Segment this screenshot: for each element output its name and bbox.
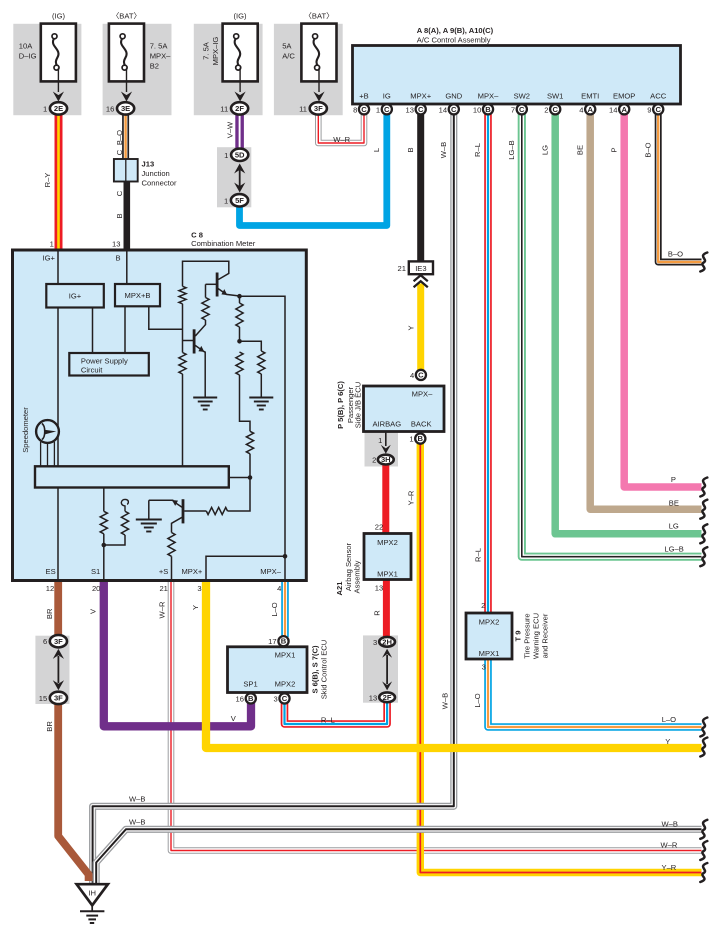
wire L-O from Tire Pressure ECU pin 3 to right edge <box>488 658 702 727</box>
wire R8 to Q4 base <box>184 510 206 512</box>
connector 2 3H <box>372 455 394 465</box>
wire R-L from connector 2F to Skid Control ECU MPX2 pin 3 <box>285 701 388 724</box>
ECU T9 Tire Pressure Warning ECU box <box>466 613 512 659</box>
svg-text:3E: 3E <box>121 104 130 113</box>
svg-text:9: 9 <box>647 105 651 114</box>
wire R7 to node3 <box>228 454 251 511</box>
svg-text:〈BAT〉: 〈BAT〉 <box>112 11 141 20</box>
svg-text:T 9: T 9 <box>514 631 523 642</box>
connector 16 3E <box>106 102 134 114</box>
wire R-L from A/C MPX- pin to Tire Pressure ECU pin 2 <box>484 112 492 614</box>
svg-text:3: 3 <box>373 638 377 647</box>
pin 1 C IG of A/C Control Assembly <box>376 92 392 115</box>
svg-text:L–O: L–O <box>270 602 279 616</box>
svg-text:Y: Y <box>191 605 200 610</box>
svg-text:BE: BE <box>576 145 585 155</box>
svg-text:MPX2: MPX2 <box>479 618 500 627</box>
svg-text:MPX–IG: MPX–IG <box>211 37 220 66</box>
label 10A D-IG <box>19 41 37 60</box>
svg-text:C: C <box>451 105 457 114</box>
svg-text:MPX+: MPX+ <box>181 567 202 576</box>
svg-text:B–O: B–O <box>115 130 124 145</box>
connector 13 2F <box>369 692 395 702</box>
svg-text:B: B <box>248 694 254 703</box>
svg-text:2: 2 <box>372 456 376 465</box>
pin 7 C SW2 of A/C Control Assembly <box>511 92 530 115</box>
svg-text:J13: J13 <box>142 160 155 169</box>
transistor Q4 PNP near +S <box>149 499 183 532</box>
speedometer gauge <box>36 420 59 443</box>
continuation curl for W-R <box>700 841 707 860</box>
svg-text:1: 1 <box>43 104 47 113</box>
svg-text:P: P <box>671 475 676 484</box>
svg-text:MPX1: MPX1 <box>377 569 398 578</box>
connector 1 5F <box>224 194 248 206</box>
wire LG-B from A/C SW2 pin to right edge <box>522 112 702 557</box>
junction connector J13 <box>114 159 138 182</box>
svg-text:3F: 3F <box>54 694 63 703</box>
svg-text:1: 1 <box>224 196 228 205</box>
svg-text:21: 21 <box>398 264 406 273</box>
svg-text:C: C <box>552 105 558 114</box>
fuse F1 10A D-IG <box>41 24 76 102</box>
svg-text:Skid Control ECU: Skid Control ECU <box>319 640 328 700</box>
svg-text:3F: 3F <box>314 104 323 113</box>
svg-text:(IG): (IG) <box>233 11 247 20</box>
svg-text:〈BAT〉: 〈BAT〉 <box>304 11 333 20</box>
svg-text:W–R: W–R <box>157 601 166 618</box>
svg-text:Warning ECU: Warning ECU <box>532 613 541 659</box>
svg-text:B2: B2 <box>150 61 159 70</box>
svg-text:2F: 2F <box>235 104 244 113</box>
svg-text:3H: 3H <box>381 455 391 464</box>
svg-text:BR: BR <box>45 721 54 732</box>
svg-text:5A: 5A <box>282 41 292 50</box>
svg-text:B–O: B–O <box>668 250 683 259</box>
connector pair 3F-3F background panel <box>35 636 69 704</box>
wire L cyan from connector 5F to A/C IG pin <box>240 112 387 226</box>
pin 4 A EMTI of A/C Control Assembly <box>579 92 599 115</box>
wire R10 to node4 and S1 pin <box>103 534 105 580</box>
wire R6 to ground G2 <box>260 374 262 398</box>
connector pair 2H-2F background panel <box>363 635 398 702</box>
node4 S1 junction <box>102 543 107 548</box>
svg-text:+B: +B <box>359 92 369 101</box>
svg-text:12: 12 <box>46 584 54 593</box>
arrow pair between 5D and 5F <box>234 164 245 193</box>
wire R9 to +S pin <box>171 556 173 580</box>
pin 4 C of Passenger Side J/B ECU <box>410 370 426 380</box>
svg-text:S 6(B), S 7(C): S 6(B), S 7(C) <box>310 645 319 694</box>
svg-text:1: 1 <box>376 105 380 114</box>
svg-text:C: C <box>384 105 390 114</box>
svg-text:C: C <box>519 105 525 114</box>
connector 15 3F <box>39 692 67 704</box>
svg-text:L–O: L–O <box>662 715 676 724</box>
svg-text:(IG): (IG) <box>52 11 66 20</box>
svg-text:SW1: SW1 <box>547 92 563 101</box>
pin S1 label <box>91 567 100 593</box>
label 7.5A MPX-B2 <box>150 41 171 70</box>
svg-text:IH: IH <box>88 888 96 897</box>
svg-text:MPX–: MPX– <box>478 92 499 101</box>
pin 2 C SW1 of A/C Control Assembly <box>544 92 563 115</box>
ground G1 inside meter <box>193 397 217 399</box>
continuation curl for Y <box>700 738 707 757</box>
svg-text:R–L: R–L <box>473 143 482 157</box>
wire Q4 to ground G3 <box>148 500 150 519</box>
svg-text:4: 4 <box>410 371 414 380</box>
wire R4 to node2 <box>239 327 241 341</box>
wire node down to resistor R4 <box>239 296 241 303</box>
svg-text:L: L <box>372 148 381 152</box>
svg-text:W–R: W–R <box>333 135 350 144</box>
svg-text:C: C <box>115 190 124 196</box>
svg-text:15: 15 <box>39 694 47 703</box>
svg-text:2E: 2E <box>54 104 63 113</box>
continuation curl for B-O <box>700 253 707 272</box>
fuse F3 background panel <box>194 24 263 115</box>
node Q1 emitter junction <box>237 294 242 299</box>
svg-text:Circuit: Circuit <box>81 365 103 374</box>
wire node2 branch to resistor R6 <box>240 341 262 351</box>
svg-text:7. 5A: 7. 5A <box>202 41 211 60</box>
svg-text:2: 2 <box>544 105 548 114</box>
label S 6(B) S 7(C) Skid Control ECU rotated <box>310 640 328 700</box>
wire BR brown from Combination Meter ES pin 12 to connector 3F <box>54 579 62 639</box>
svg-text:21: 21 <box>159 584 167 593</box>
fuse F4 background panel <box>274 24 343 115</box>
svg-text:B: B <box>116 253 121 262</box>
speedometer leads to bus rail <box>41 442 55 467</box>
arrow pair between 2H and 2F <box>382 649 392 691</box>
svg-text:IG: IG <box>383 92 391 101</box>
svg-text:C: C <box>361 105 367 114</box>
svg-text:5F: 5F <box>235 196 244 205</box>
svg-text:13: 13 <box>369 693 377 702</box>
wire Q1 base to resistor R2 <box>205 284 207 297</box>
svg-text:EMOP: EMOP <box>613 92 635 101</box>
shield chevrons below IE3 <box>414 275 428 287</box>
svg-text:Y: Y <box>407 325 416 330</box>
svg-text:MPX2: MPX2 <box>377 538 398 547</box>
svg-text:22: 22 <box>375 523 383 532</box>
svg-text:MPX–: MPX– <box>260 567 281 576</box>
pin 14 A EMOP of A/C Control Assembly <box>609 92 635 115</box>
wire pin1 to IG+ block <box>57 251 59 284</box>
svg-text:+S: +S <box>159 567 169 576</box>
svg-text:C: C <box>282 694 288 703</box>
pin 13 B top of combination meter <box>112 240 121 263</box>
pin 8 C +B of A/C Control Assembly <box>353 92 369 115</box>
svg-text:6: 6 <box>43 637 47 646</box>
svg-text:MPX1: MPX1 <box>479 649 500 658</box>
svg-text:A 8(A), A 9(B), A10(C): A 8(A), A 9(B), A10(C) <box>417 26 494 35</box>
svg-text:2F: 2F <box>383 693 392 702</box>
wire LG from A/C SW1 pin to right edge <box>555 112 701 534</box>
svg-text:20: 20 <box>92 584 100 593</box>
block Power Supply Circuit <box>69 353 149 376</box>
svg-text:A/C Control Assembly: A/C Control Assembly <box>417 35 491 44</box>
fuse F1 background panel <box>13 24 81 115</box>
svg-text:IE3: IE3 <box>415 264 426 273</box>
label P 5(B) P 6(C) Passenger Side J/B ECU rotated <box>336 381 362 429</box>
svg-text:8: 8 <box>353 105 357 114</box>
resistor R10 on S1 <box>100 511 107 534</box>
svg-text:1: 1 <box>378 436 382 445</box>
svg-text:D–IG: D–IG <box>19 51 37 60</box>
ground IH <box>77 884 108 923</box>
svg-text:MPX1: MPX1 <box>275 650 296 659</box>
label T 9 Tire Pressure Warning ECU and Receiver rotated <box>514 613 550 659</box>
resistor R3 <box>179 353 186 375</box>
svg-text:V: V <box>231 714 237 723</box>
node MPX junction <box>283 554 288 559</box>
resistor R7 <box>246 431 253 454</box>
svg-text:LG: LG <box>669 522 679 531</box>
continuation curl for W-B <box>700 820 707 839</box>
svg-text:Assembly: Assembly <box>352 560 361 593</box>
svg-text:1: 1 <box>50 240 54 249</box>
transistor Q1 NPN <box>206 273 240 297</box>
wire V purple from Combination Meter S1 pin 20 to Skid Control ECU SP1 pin 16 <box>104 579 251 726</box>
wire bus to ES pin <box>57 488 59 581</box>
wire MPX+ pin to MPX- column <box>206 556 285 580</box>
transistor Q2 NPN <box>183 329 206 353</box>
svg-text:A/C: A/C <box>282 51 295 60</box>
svg-text:R–Y: R–Y <box>43 173 52 188</box>
wire Y from IE3 to Passenger J/B ECU pin 4 <box>417 284 424 372</box>
svg-text:R–L: R–L <box>321 715 335 724</box>
svg-text:16: 16 <box>106 104 114 113</box>
svg-text:B–O: B–O <box>644 142 653 157</box>
node3 bus junction <box>248 475 253 480</box>
connector 3 2H <box>373 637 395 647</box>
svg-text:Junction: Junction <box>142 169 170 178</box>
wire R1 to Q2 base column <box>182 304 184 353</box>
bus rail box inside meter <box>35 466 229 487</box>
svg-text:4: 4 <box>579 105 583 114</box>
continuation curl for BE <box>700 500 707 519</box>
resistor R4 <box>236 303 243 327</box>
coil hook above R11 <box>121 499 128 511</box>
wire bus rail to node3 <box>229 477 250 479</box>
svg-text:LG–B: LG–B <box>664 545 683 554</box>
svg-text:BR: BR <box>45 608 54 619</box>
svg-text:Y: Y <box>665 737 670 746</box>
svg-text:Side J/B ECU: Side J/B ECU <box>353 382 362 428</box>
svg-text:IG+: IG+ <box>43 253 56 262</box>
resistor R11 <box>121 511 128 535</box>
connector 1 2E <box>43 102 67 114</box>
svg-text:14: 14 <box>609 105 617 114</box>
svg-text:C: C <box>115 149 124 155</box>
fuse F4 5A A/C <box>301 24 336 102</box>
pin 14 C GND of A/C Control Assembly <box>439 92 463 115</box>
svg-text:P: P <box>610 147 619 152</box>
pin MPX+ label <box>181 567 202 593</box>
svg-text:B: B <box>406 147 415 152</box>
svg-text:11: 11 <box>220 104 228 113</box>
wire R from connector 3H to Airbag Sensor pin 22 <box>382 462 389 534</box>
svg-text:GND: GND <box>445 92 462 101</box>
svg-text:3: 3 <box>197 584 201 593</box>
svg-text:MPX+: MPX+ <box>410 92 431 101</box>
svg-text:R–L: R–L <box>473 548 482 562</box>
svg-text:ES: ES <box>46 567 56 576</box>
svg-text:W–B: W–B <box>129 818 145 827</box>
svg-text:1: 1 <box>224 151 228 160</box>
wire B-O from A/C ACC pin to right edge <box>658 112 701 262</box>
ECU A8 A9 A10 A/C Control Assembly box <box>353 46 681 105</box>
svg-text:14: 14 <box>439 105 447 114</box>
svg-text:C: C <box>418 370 424 379</box>
connector 6 3F <box>43 635 67 647</box>
pin MPX- label <box>260 567 281 593</box>
wire P from A/C EMOP pin to right edge <box>624 112 701 487</box>
continuation curl for P <box>700 478 707 497</box>
connector 11 3F fuse4 <box>299 102 327 114</box>
svg-text:P 5(B), P 6(C): P 5(B), P 6(C) <box>336 381 345 429</box>
wire R3 to bus rail <box>182 374 184 466</box>
continuation curl for Y-R <box>700 863 707 882</box>
svg-text:B: B <box>485 105 491 114</box>
svg-text:3: 3 <box>273 694 277 703</box>
resistor R2 <box>202 298 209 321</box>
svg-text:V–W: V–W <box>226 121 235 138</box>
wire B from J13 to Combination Meter pin 13 <box>124 181 131 252</box>
ground G3 inside meter <box>136 519 162 521</box>
wire L-O from Combination Meter MPX- pin 4 to Skid Control ECU MPX1 pin 17 <box>281 579 289 637</box>
wire R-Y from fuse 2E to Combination Meter pin 1 <box>55 112 63 251</box>
svg-text:Speedometer: Speedometer <box>21 407 30 453</box>
svg-text:C: C <box>418 105 424 114</box>
continuation curl for LG <box>700 524 707 543</box>
ECU C8 Combination Meter box <box>13 250 307 581</box>
svg-text:W–B: W–B <box>439 142 448 158</box>
wire BR brown from connector 3F to ground IH <box>58 701 88 881</box>
pin 17 B of Skid Control ECU <box>268 636 288 646</box>
node2 resistor junction <box>237 339 242 344</box>
svg-text:C 8: C 8 <box>191 230 203 239</box>
connector 21 IE3 <box>398 261 433 274</box>
svg-text:A: A <box>621 105 627 114</box>
wire top rail to transistor Q1 <box>183 261 229 286</box>
ECU P5 P6 Passenger Side J/B ECU box <box>364 386 445 432</box>
wire V-W from fuse 2F to connector 5D <box>235 112 244 150</box>
svg-text:13: 13 <box>112 240 120 249</box>
svg-text:L–O: L–O <box>473 693 482 707</box>
fuse F2 7.5A MPX-B2 <box>109 24 144 102</box>
wire node to MPX- column <box>240 296 286 580</box>
wire W-B from right edge to ground IH <box>96 829 701 884</box>
svg-text:7. 5A: 7. 5A <box>150 41 169 50</box>
svg-text:EMTI: EMTI <box>581 92 599 101</box>
wire IG+ block to power supply circuit <box>92 308 94 354</box>
pin +S label <box>159 567 169 593</box>
wire W-R from Combination Meter +S pin 21 to right edge <box>171 579 702 851</box>
svg-text:MPX–: MPX– <box>150 51 171 60</box>
wire IG+ block to speedometer rail <box>57 308 59 467</box>
svg-text:10A: 10A <box>19 41 33 50</box>
wire R2 to transistor Q2 <box>195 320 205 336</box>
svg-text:16: 16 <box>236 694 244 703</box>
svg-text:2H: 2H <box>382 637 392 646</box>
block IG+ inside meter <box>46 284 104 308</box>
wire Q2 emitter to ground G1 <box>204 352 206 398</box>
svg-text:3F: 3F <box>54 637 63 646</box>
svg-text:W–R: W–R <box>661 841 678 850</box>
svg-text:1: 1 <box>409 435 413 444</box>
fuse F2 background panel <box>103 24 172 115</box>
svg-text:MPX–: MPX– <box>412 389 433 398</box>
resistor R6 <box>258 351 265 374</box>
pin 10 B MPX&#8211; of A/C Control Assembly <box>473 92 499 115</box>
svg-text:10: 10 <box>473 105 481 114</box>
connector 1 5D <box>224 149 248 161</box>
svg-text:S1: S1 <box>91 567 100 576</box>
resistor R9 <box>168 533 175 557</box>
pin 1 B BACK of J/B ECU <box>409 434 425 444</box>
svg-text:W–B: W–B <box>440 693 449 709</box>
pin 16 B of Skid Control ECU <box>236 693 256 703</box>
resistor R5 <box>236 352 243 375</box>
svg-text:SW2: SW2 <box>514 92 530 101</box>
ECU A21 Airbag Sensor Assembly box <box>364 534 411 580</box>
svg-text:4: 4 <box>277 584 281 593</box>
svg-text:Combination Meter: Combination Meter <box>191 239 256 248</box>
wire R from Airbag Sensor pin 13 to connector 2H <box>383 579 390 639</box>
svg-text:and Receiver: and Receiver <box>541 613 550 658</box>
svg-text:B: B <box>418 434 424 443</box>
pin 13 C MPX+ of A/C Control Assembly <box>406 92 432 115</box>
wire Y-R from Passenger J/B ECU BACK pin 1 to right edge <box>420 443 701 873</box>
wire W-B from A/C GND pin to ground IH <box>93 112 454 884</box>
wire MPX+B block to resistor R1 <box>149 306 183 329</box>
wire R5 down to elbow and resistor R7 <box>240 375 251 431</box>
resistor R1 <box>179 286 186 304</box>
wire pin13 to MPX+B block <box>126 251 128 284</box>
AIRBAG pin lead and arrow to 3H <box>378 432 391 454</box>
label 5A A/C <box>282 41 295 60</box>
resistor R8 horizontal <box>206 507 227 514</box>
svg-text:LG–B: LG–B <box>507 140 516 159</box>
pin 1 IG+ top of combination meter <box>43 240 56 263</box>
svg-text:Y–R: Y–R <box>407 490 416 505</box>
pin 9 C ACC of A/C Control Assembly <box>647 92 666 115</box>
svg-text:Y–R: Y–R <box>662 863 677 872</box>
svg-text:Power Supply: Power Supply <box>81 357 128 366</box>
arrow pair between 3F and 3F <box>53 649 64 690</box>
svg-text:13: 13 <box>375 583 383 592</box>
wire MPX+B block to power supply circuit <box>124 306 126 353</box>
wire B-O from fuse 3E to J13 <box>122 112 129 160</box>
continuation curl for L-O <box>700 718 707 737</box>
wire node4 to resistor R11 <box>104 535 125 545</box>
label J13 Junction Connector <box>142 160 178 188</box>
pin ES label <box>46 567 56 593</box>
svg-text:W–B: W–B <box>129 795 145 804</box>
svg-text:Connector: Connector <box>142 179 178 188</box>
svg-text:MPX2: MPX2 <box>275 680 296 689</box>
fuse F3 7.5A MPX-IG <box>223 24 258 102</box>
ECU S6 S7 Skid Control ECU box <box>228 647 308 693</box>
svg-text:B: B <box>281 637 287 646</box>
svg-text:A: A <box>587 105 593 114</box>
wire BE from A/C EMTI pin to right edge <box>590 112 701 509</box>
svg-text:2: 2 <box>481 601 485 610</box>
wire B from A/C MPX+ pin to IE3 <box>417 112 424 262</box>
